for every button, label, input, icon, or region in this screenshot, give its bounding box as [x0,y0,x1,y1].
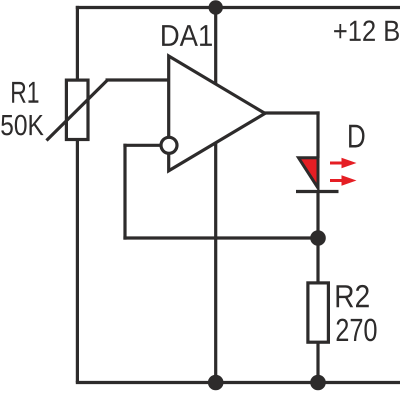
wire: output down to LED anode [316,111,319,158]
wire: bottom rail [76,381,400,384]
label 270 [337,319,377,342]
junction dot: bottom rail at supply [208,375,224,391]
wire: feedback horizontal to output node [123,236,318,239]
junction dot: top rail / supply [209,0,223,14]
inverting input bubble [161,137,177,153]
LED light arrow lower [330,175,357,185]
LED cathode bar [296,190,339,193]
resistor R1 body [66,80,88,139]
label DA1 [162,25,212,46]
wire: wiper to non-inverting input [106,78,171,81]
wire: node to R2 top lead [316,236,319,283]
wire: LED cathode to node [316,192,319,240]
junction dot: feedback / output node [310,230,326,246]
wire: op-amp supply vertical [214,8,217,383]
label R2 [337,285,369,307]
wire: feedback vertical [123,144,126,240]
wire: top rail to R1 top lead [76,6,79,81]
label +12 V supply [334,20,399,41]
R1 rheostat wiper arrow diagonal [47,80,108,141]
label D (LED) [349,125,364,148]
wire: inverting input [123,144,161,147]
junction dot: bottom rail at R2 [310,375,326,391]
wire: R1 bottom lead down left side [76,140,79,383]
resistor R2 body [308,283,329,342]
label R1 [12,82,38,103]
LED D red triangle [299,158,319,188]
wire: R2 bottom lead [316,342,319,383]
op-amp DA1 triangle [169,56,265,171]
wire: +12V top rail [76,6,400,9]
LED light arrow upper [330,158,357,168]
label 50K [1,115,43,136]
wire: op-amp output horizontal [264,111,320,114]
